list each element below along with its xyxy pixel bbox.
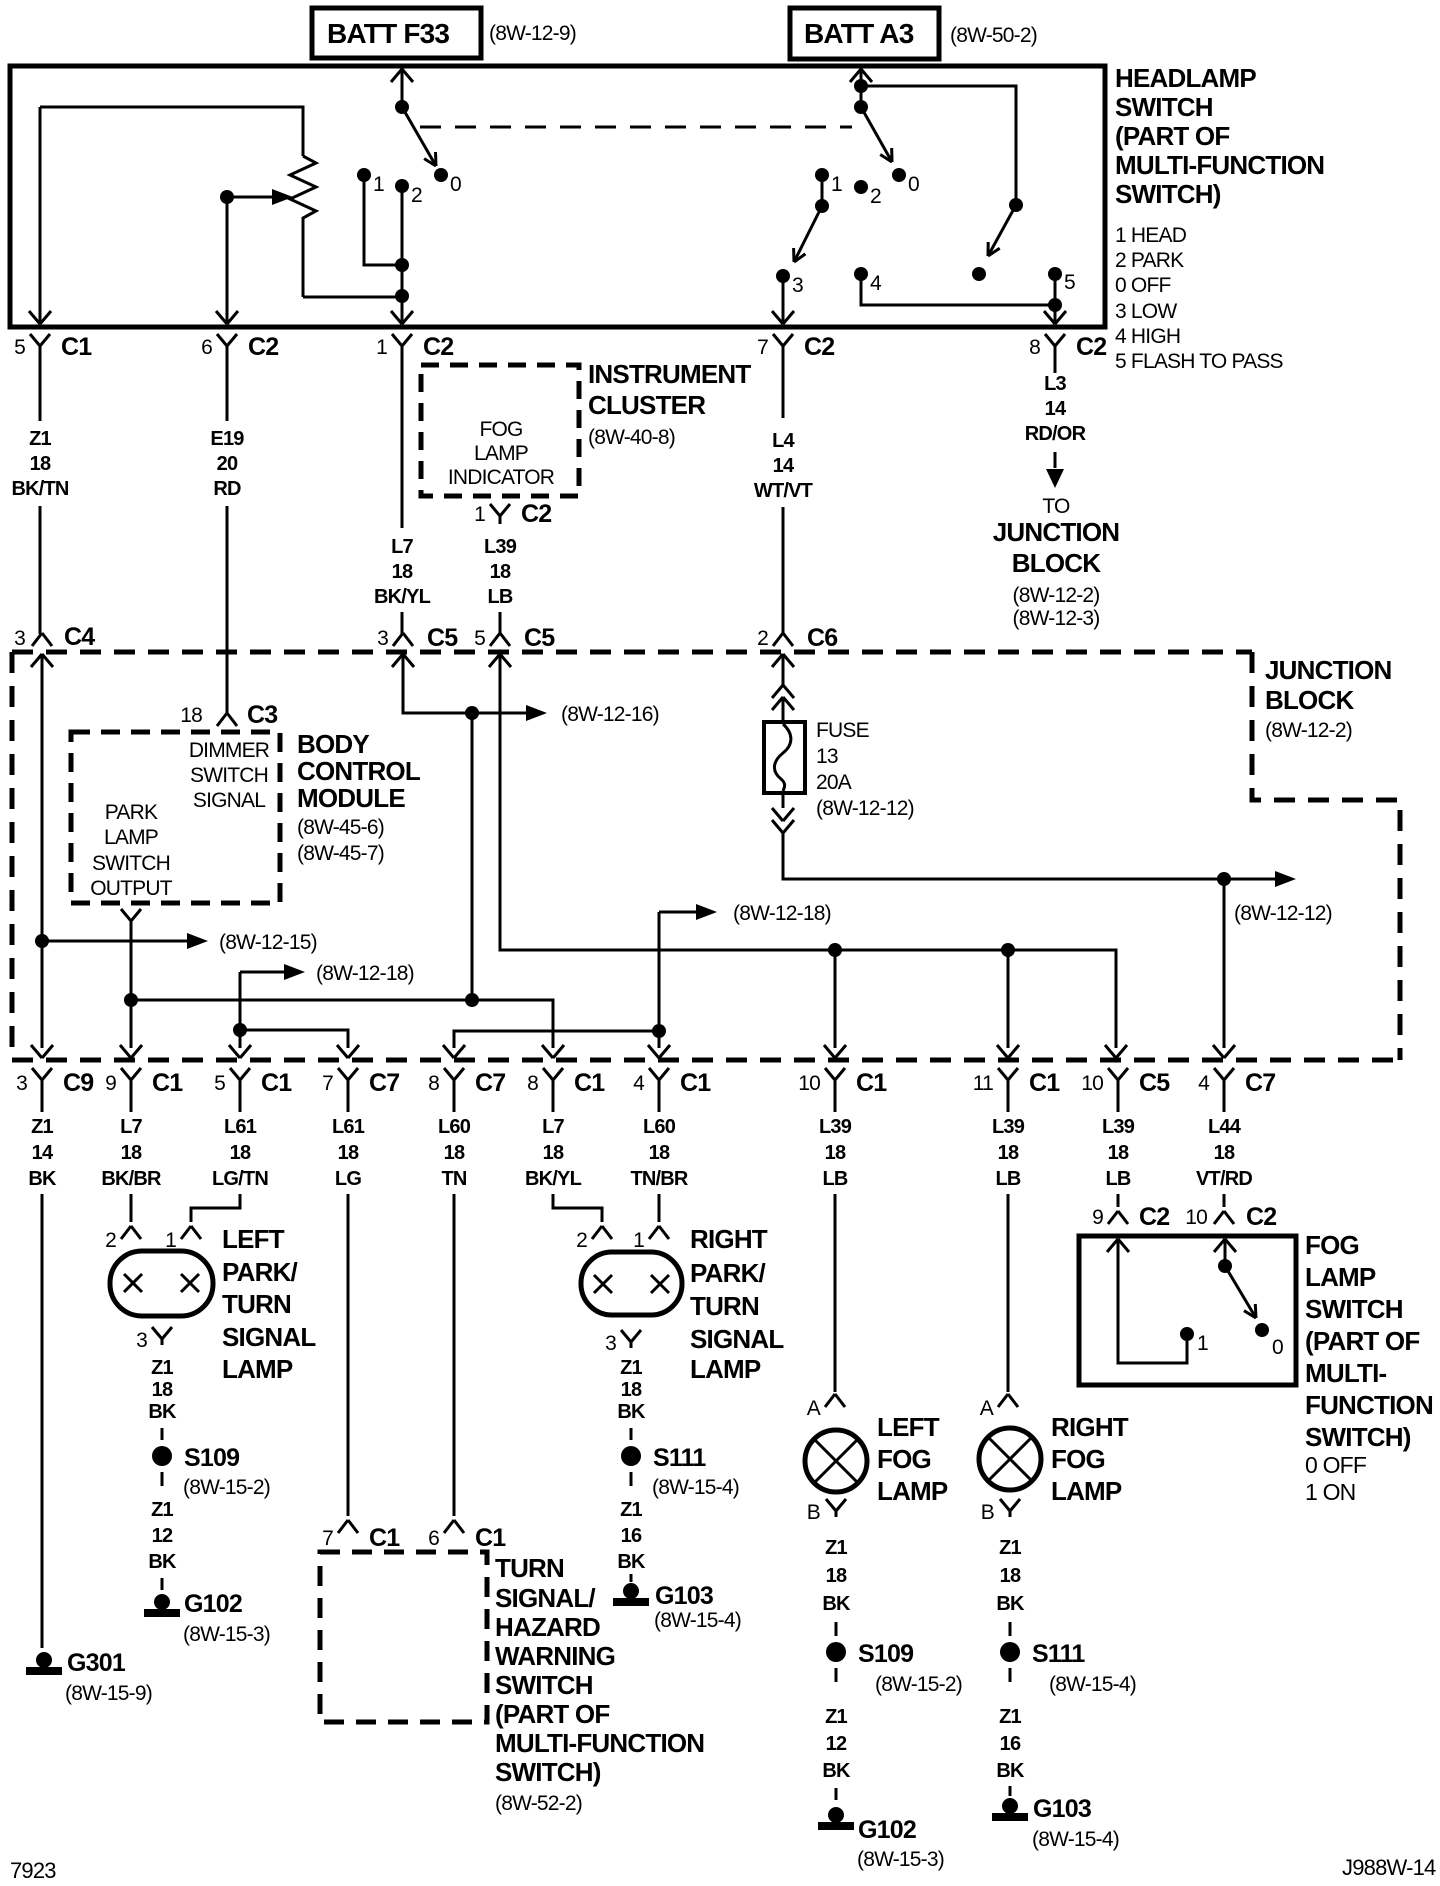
wire L39 bus [500,668,1116,1048]
svg-text:18: 18 [998,1142,1019,1164]
svg-text:MULTI-: MULTI- [1305,1358,1386,1388]
svg-text:L39: L39 [992,1116,1025,1138]
svg-text:BK: BK [617,1551,646,1573]
lamp pin 1 connector (right) [649,1226,659,1239]
svg-text:(8W-12-16): (8W-12-16) [561,703,659,726]
connector C9 pin 3 (junction block bottom) [32,1068,42,1080]
wiper node dot [220,190,234,204]
svg-text:16: 16 [621,1525,642,1547]
svg-text:16: 16 [1000,1733,1021,1755]
junction entry arrow C6 [772,654,783,667]
wire label L39 18 LB [1007,1095,1010,1112]
svg-text:(8W-52-2): (8W-52-2) [495,1792,582,1815]
svg-text:1: 1 [831,173,842,196]
lamp pin 2 connector (left) [121,1226,131,1239]
wire from BATT A3 into switch [860,67,863,107]
fog switch terminal 1 [1180,1327,1194,1341]
svg-text:L39: L39 [484,536,517,558]
svg-text:(8W-12-18): (8W-12-18) [733,902,831,925]
wire L44 drop [1223,879,1226,1048]
connector C5 pin 5 [490,633,500,646]
svg-text:12: 12 [152,1525,173,1547]
svg-text:FUNCTION: FUNCTION [1305,1390,1433,1420]
svg-text:Z1: Z1 [620,1499,642,1521]
wire label L44 18 VT/RD [1223,1095,1226,1112]
fuse 13 20A [764,722,805,793]
svg-text:E19: E19 [210,428,244,450]
ground G103 (right lamp) [623,1583,639,1599]
svg-text:BK: BK [28,1168,57,1190]
svg-text:L4: L4 [772,430,795,452]
svg-text:PARK: PARK [105,801,158,824]
svg-text:G301: G301 [67,1649,126,1677]
svg-text:5 FLASH TO PASS: 5 FLASH TO PASS [1115,350,1284,373]
svg-text:TURN: TURN [222,1289,291,1319]
svg-text:C9: C9 [63,1069,93,1097]
svg-text:S111: S111 [1032,1640,1085,1668]
lamp pin 1 connector (left) [181,1226,191,1239]
svg-text:TURN: TURN [690,1291,759,1321]
svg-text:(8W-40-8): (8W-40-8) [588,426,675,449]
svg-text:BLOCK: BLOCK [1012,548,1101,578]
svg-text:18: 18 [121,1142,142,1164]
rheostat (panel dimmer) [290,156,316,297]
wire label Z1 14 BK [41,1095,44,1112]
splice S109 (left lamp) [152,1446,172,1466]
svg-text:18: 18 [1000,1565,1021,1587]
svg-text:LEFT: LEFT [877,1412,940,1442]
svg-text:LAMP: LAMP [222,1354,293,1384]
svg-text:INSTRUMENT: INSTRUMENT [588,359,751,389]
svg-text:OUTPUT: OUTPUT [90,877,173,900]
wire L60 TN to switch [453,1194,456,1516]
fog switch pivot dot [1218,1259,1232,1273]
svg-text:FUSE: FUSE [816,719,870,742]
svg-text:13: 13 [816,745,838,768]
wire L39 LB to fog switch [1117,1194,1120,1207]
svg-text:C2: C2 [423,333,453,361]
svg-text:18: 18 [230,1142,251,1164]
svg-text:3 LOW: 3 LOW [1115,300,1177,323]
svg-text:4: 4 [633,1072,645,1095]
svg-text:SWITCH: SWITCH [190,764,268,787]
splice lead dash [161,1472,164,1486]
wire label L60 18 TN [453,1095,456,1112]
svg-text:LB: LB [1105,1168,1130,1190]
switch arm to position 0 (right) [861,107,892,162]
wire L60 branch [454,1031,659,1048]
lamp pin 3 connector (right) [621,1330,631,1342]
junction dot [465,993,479,1007]
connector C3 pin 18 [217,713,227,726]
svg-text:SWITCH): SWITCH) [495,1757,601,1787]
wire down to connector C1-5 [39,107,42,324]
lamp filament X right [651,1275,669,1293]
lamp filament X left [124,1274,142,1292]
svg-text:LB: LB [822,1168,847,1190]
splice lead dash [161,1428,164,1440]
svg-text:C1: C1 [1029,1069,1060,1097]
svg-text:12: 12 [826,1733,847,1755]
svg-text:20A: 20A [816,771,852,794]
connector C7 pin 8 (junction block bottom) [444,1068,454,1080]
fog switch wire to terminal 1 [1118,1239,1187,1363]
switch pivot node (right) [854,100,868,114]
svg-text:7: 7 [757,336,768,359]
lamp filament X left [594,1275,612,1293]
fuse output chevrons [782,793,785,808]
connector C5 pin 3 [393,633,403,646]
svg-text:CLUSTER: CLUSTER [588,390,706,420]
right park/turn signal lamp [581,1252,682,1315]
svg-text:FOG: FOG [1051,1444,1105,1474]
svg-text:A: A [980,1397,994,1420]
svg-text:C6: C6 [807,624,837,652]
wire label L7 18 BK/BR [130,1095,133,1112]
battery feed box BATT A3 [790,8,939,59]
svg-text:18: 18 [1214,1142,1235,1164]
svg-text:FOG: FOG [1305,1230,1359,1260]
fog lamp pin A connector (left) [825,1394,835,1407]
junction dot fused feed [1217,872,1231,886]
svg-text:1 ON: 1 ON [1305,1479,1355,1505]
right fog lamp [979,1428,1041,1490]
svg-text:RIGHT: RIGHT [690,1224,768,1254]
connector C1 pin 5 (junction block bottom) [230,1068,240,1080]
splice S111 (right lamp) [621,1446,641,1466]
svg-text:(8W-12-9): (8W-12-9) [489,22,576,45]
svg-text:1 HEAD: 1 HEAD [1115,224,1187,247]
svg-text:(8W-12-2): (8W-12-2) [1265,719,1352,742]
svg-text:A: A [807,1397,821,1420]
svg-text:C1: C1 [61,333,92,361]
instrument cluster box [421,365,579,496]
svg-text:2: 2 [576,1229,587,1252]
svg-text:PARK/: PARK/ [690,1258,766,1288]
wire label L39 18 LB [1117,1095,1120,1112]
svg-text:Z1: Z1 [151,1357,173,1379]
svg-text:0: 0 [1272,1336,1283,1359]
splice lead dash [630,1472,633,1486]
svg-text:18: 18 [30,453,51,475]
fog lamp pin A connector (right) [998,1394,1008,1407]
svg-text:DIMMER: DIMMER [189,739,270,762]
svg-text:11: 11 [973,1072,993,1095]
svg-text:Z1: Z1 [999,1706,1021,1728]
wire L3 upper [1054,361,1057,373]
svg-text:8: 8 [1029,336,1040,359]
svg-text:10: 10 [1185,1206,1207,1229]
svg-text:LAMP: LAMP [877,1476,948,1506]
svg-text:MODULE: MODULE [297,783,405,813]
svg-text:0 OFF: 0 OFF [1305,1452,1367,1478]
off-page (8W-12-18) lower [659,911,696,914]
switch arm to position 0 (left) [402,107,436,166]
svg-text:Z1: Z1 [151,1499,173,1521]
fog switch arm [1225,1266,1256,1318]
svg-text:L61: L61 [332,1116,365,1138]
wire L7 upper [401,361,404,528]
svg-text:LB: LB [487,586,512,608]
svg-text:BK/YL: BK/YL [525,1168,582,1190]
dimmer arm [988,205,1016,256]
connector C7 pin 4 (junction block bottom) [1214,1068,1224,1080]
terminal 1 (left) [357,168,371,182]
svg-text:BODY: BODY [297,729,369,759]
terminal 1 (right) [815,168,829,182]
connector C1 pin 11 (junction block bottom) [998,1068,1008,1080]
svg-text:Z1: Z1 [29,428,51,450]
connector C1 pin 8 (junction block bottom) [543,1068,553,1080]
svg-text:5: 5 [1064,271,1075,294]
svg-text:G103: G103 [1033,1795,1091,1823]
svg-text:8: 8 [527,1072,538,1095]
ground G301 [36,1652,52,1668]
svg-text:S111: S111 [653,1444,706,1472]
junction dot L60 [652,1024,666,1038]
body control module box [71,732,280,903]
svg-text:L60: L60 [438,1116,471,1138]
svg-text:Z1: Z1 [825,1537,847,1559]
svg-text:SWITCH: SWITCH [1305,1294,1403,1324]
junction dot Z1 [35,934,49,948]
wire terminal 4 to 5 [861,274,1055,305]
wire to dimmer-switch pivot [861,86,1016,205]
svg-text:3: 3 [377,627,388,650]
wire L60 vertical [658,912,661,1048]
terminal 0 (left) [434,168,448,182]
svg-text:BLOCK: BLOCK [1265,685,1354,715]
svg-text:BK: BK [148,1401,177,1423]
svg-text:(8W-15-2): (8W-15-2) [183,1476,270,1499]
wire L61 vertical [239,972,242,1048]
svg-text:18: 18 [1108,1142,1129,1164]
svg-text:(8W-15-3): (8W-15-3) [183,1623,270,1646]
svg-text:TO: TO [1042,495,1070,518]
fuse supply chevrons upper [772,685,783,698]
svg-text:G103: G103 [655,1582,713,1610]
wire label L61 18 LG/TN [239,1095,242,1112]
junction dot L7 bus [124,993,138,1007]
wire label L39 18 LB [834,1095,837,1112]
terminal 2 (left) [395,179,409,193]
svg-text:RIGHT: RIGHT [1051,1412,1129,1442]
mechanical linkage dashed line [420,126,852,129]
svg-text:18: 18 [543,1142,564,1164]
wire terminal 1 to bus [364,175,402,265]
svg-text:C1: C1 [261,1069,292,1097]
terminal 3 [776,269,790,283]
svg-text:(8W-15-4): (8W-15-4) [1049,1673,1136,1696]
svg-text:14: 14 [32,1142,54,1164]
connector C6 pin 2 [773,633,783,646]
svg-text:7923: 7923 [10,1858,56,1883]
svg-text:S109: S109 [858,1640,913,1668]
connector C1 pin 7 (turn signal switch) [338,1520,348,1533]
svg-text:(8W-12-2): (8W-12-2) [1013,584,1100,607]
svg-text:L60: L60 [643,1116,676,1138]
svg-text:MULTI-FUNCTION: MULTI-FUNCTION [1115,150,1324,180]
lamp pin 3 connector (left) [152,1327,162,1339]
svg-text:(8W-12-12): (8W-12-12) [1234,902,1332,925]
svg-text:(8W-12-18): (8W-12-18) [316,962,414,985]
splice lead dash [835,1622,838,1636]
svg-text:BATT A3: BATT A3 [804,18,914,49]
svg-text:7: 7 [322,1072,333,1095]
ground lead dash [161,1578,164,1590]
svg-text:(8W-15-2): (8W-15-2) [875,1673,962,1696]
node dot [854,79,868,93]
junction dot L7 tap [465,706,479,720]
junction block boundary [1252,652,1400,1060]
svg-text:1: 1 [373,173,384,196]
svg-text:C1: C1 [574,1069,605,1097]
svg-text:C2: C2 [1139,1203,1169,1231]
splice lead dash [630,1428,633,1440]
wire L7 drop [471,713,474,1000]
svg-text:C2: C2 [248,333,278,361]
headlamp switch box [10,66,1105,327]
svg-text:(8W-15-9): (8W-15-9) [65,1682,152,1705]
svg-text:LAMP: LAMP [1051,1476,1122,1506]
svg-text:18: 18 [444,1142,465,1164]
svg-text:(8W-15-3): (8W-15-3) [857,1848,944,1871]
wire L39 to left fog lamp [834,1194,837,1392]
svg-text:L61: L61 [224,1116,257,1138]
wire E19 upper [226,361,229,421]
svg-text:1: 1 [376,336,387,359]
junction dot L61 [233,1023,247,1037]
left park/turn signal lamp [110,1251,213,1316]
svg-text:Z1: Z1 [31,1116,53,1138]
svg-text:B: B [807,1501,820,1524]
svg-text:C7: C7 [1245,1069,1275,1097]
splice lead dash [1009,1668,1012,1682]
connector C5 pin 10 (junction block bottom) [1108,1068,1118,1080]
wire L4 upper [782,361,785,418]
svg-text:C2: C2 [1246,1203,1276,1231]
wire L39 drop left fog [834,950,837,1048]
junction dot [395,258,409,272]
connector C2 pin 7 (headlamp switch) [773,334,783,346]
svg-text:INDICATOR: INDICATOR [448,466,555,489]
svg-text:SIGNAL: SIGNAL [222,1322,316,1352]
wire L7 BK/YL to right lamp pin 2 [553,1194,602,1222]
svg-text:2: 2 [870,185,881,208]
svg-text:SIGNAL: SIGNAL [690,1324,784,1354]
svg-text:LB: LB [995,1168,1020,1190]
wire E19 lower [226,506,229,713]
svg-text:Z1: Z1 [620,1357,642,1379]
svg-text:18: 18 [152,1379,173,1401]
wire L7 to 8W-12-16 [403,668,526,713]
svg-text:3: 3 [136,1329,147,1352]
svg-text:(PART OF: (PART OF [495,1699,609,1729]
svg-text:0 OFF: 0 OFF [1115,274,1171,297]
junction dot L39 right [1001,943,1015,957]
svg-text:C2: C2 [804,333,834,361]
junction entry arrow C4 [31,654,42,667]
svg-text:2: 2 [411,184,422,207]
svg-text:4 HIGH: 4 HIGH [1115,325,1180,348]
connector C1 pin 10 (junction block bottom) [825,1068,835,1080]
svg-text:C5: C5 [1139,1069,1170,1097]
dimmer resting contact [972,267,986,281]
svg-text:4: 4 [870,272,882,295]
svg-text:10: 10 [1081,1072,1103,1095]
ground lead dash [835,1788,838,1800]
svg-text:(8W-15-4): (8W-15-4) [654,1609,741,1632]
svg-text:2: 2 [757,627,768,650]
svg-text:LAMP: LAMP [1305,1262,1376,1292]
svg-text:C7: C7 [369,1069,399,1097]
connector C1 pin 4 (junction block bottom) [649,1068,659,1080]
svg-text:(PART OF: (PART OF [1115,121,1229,151]
svg-text:WARNING: WARNING [495,1641,615,1671]
svg-text:18: 18 [338,1142,359,1164]
svg-text:L39: L39 [1102,1116,1135,1138]
svg-text:SWITCH: SWITCH [495,1670,593,1700]
splice S109 (left fog) [826,1642,846,1662]
wire L7 bus [131,1000,553,1048]
svg-text:(8W-12-12): (8W-12-12) [816,797,914,820]
svg-text:BATT F33: BATT F33 [327,18,449,49]
svg-text:C1: C1 [152,1069,183,1097]
wire fused feed [783,833,1275,879]
svg-text:BK: BK [822,1760,851,1782]
connector C2 pin 9 (fog switch) [1108,1211,1118,1224]
svg-text:LG/TN: LG/TN [212,1168,268,1190]
svg-text:C1: C1 [680,1069,711,1097]
svg-text:FOG: FOG [479,418,522,441]
svg-text:18: 18 [826,1565,847,1587]
svg-text:C4: C4 [64,623,95,651]
connector C1 pin 6 (turn signal switch) [444,1520,454,1533]
off-page (8W-12-18) upper [240,971,284,974]
wire into fuse [782,697,785,724]
connector C2 pin 8 (headlamp switch) [1045,334,1055,346]
svg-text:C1: C1 [475,1524,506,1552]
svg-text:(PART OF: (PART OF [1305,1326,1419,1356]
fog switch entry arrow right [1214,1239,1225,1252]
splice lead dash [835,1668,838,1682]
svg-text:LAMP: LAMP [104,826,158,849]
wire label L61 18 LG [347,1095,350,1112]
svg-text:2: 2 [105,1229,116,1252]
svg-text:SWITCH): SWITCH) [1305,1422,1411,1452]
wire park lamp output [130,925,133,1048]
svg-text:S109: S109 [184,1444,239,1472]
terminal 4 [854,267,868,281]
wire L61 branch [240,1030,348,1048]
svg-text:RD: RD [213,478,241,500]
svg-text:18: 18 [392,561,413,583]
svg-text:BK: BK [148,1551,177,1573]
wire L61 LG to switch [347,1194,350,1516]
svg-text:BK/TN: BK/TN [11,478,68,500]
svg-text:5: 5 [214,1072,225,1095]
svg-text:7: 7 [322,1527,333,1550]
wire terminal 2 down to connector C2-1 [401,186,404,324]
svg-text:C5: C5 [427,624,458,652]
ground G102 (left lamp) [154,1594,170,1610]
wire L39 drop right fog [1007,950,1010,1048]
svg-text:J988W-14: J988W-14 [1342,1855,1436,1880]
svg-text:LEFT: LEFT [222,1224,285,1254]
battery feed box BATT F33 [312,8,481,58]
svg-text:LG: LG [335,1168,361,1190]
ground G103 (right fog) [1002,1798,1018,1814]
